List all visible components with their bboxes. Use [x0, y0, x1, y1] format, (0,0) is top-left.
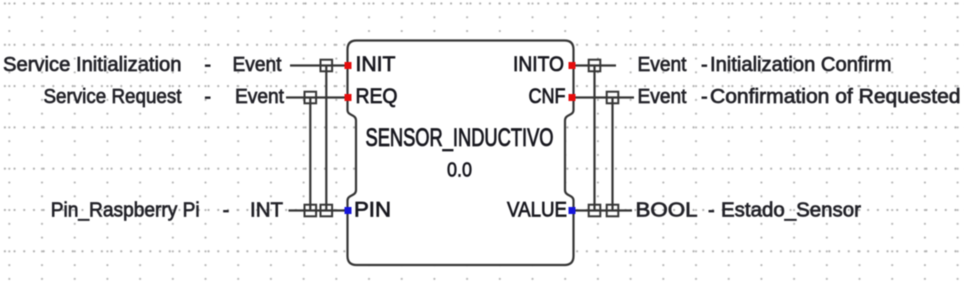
svg-text:Service Request: Service Request [44, 86, 182, 108]
svg-text:-: - [204, 54, 211, 76]
svg-text:Event: Event [235, 86, 284, 108]
svg-text:-: - [701, 54, 708, 76]
svg-text:PIN: PIN [354, 198, 391, 222]
svg-text:-: - [701, 86, 708, 108]
svg-text:Event: Event [638, 86, 687, 108]
svg-text:-: - [223, 200, 230, 222]
svg-text:CNF: CNF [529, 84, 566, 108]
svg-text:0.0: 0.0 [447, 159, 472, 182]
svg-text:INIT: INIT [356, 52, 396, 76]
svg-text:Event: Event [233, 54, 282, 76]
svg-text:INITO: INITO [513, 52, 564, 76]
svg-text:-: - [708, 200, 715, 222]
svg-text:Confirmation of Requested: Confirmation of Requested [710, 86, 961, 108]
svg-text:Pin_Raspberry Pi: Pin_Raspberry Pi [51, 200, 200, 222]
svg-text:INT: INT [250, 200, 283, 222]
svg-text:Service Initialization: Service Initialization [3, 54, 182, 76]
svg-text:REQ: REQ [356, 84, 398, 108]
svg-text:VALUE: VALUE [507, 198, 567, 222]
svg-text:Estado_Sensor: Estado_Sensor [721, 200, 861, 222]
svg-text:SENSOR_INDUCTIVO: SENSOR_INDUCTIVO [366, 125, 554, 152]
svg-text:-: - [204, 86, 211, 108]
svg-text:Initialization Confirm: Initialization Confirm [710, 54, 892, 76]
svg-text:Event: Event [638, 54, 687, 76]
svg-text:BOOL: BOOL [636, 200, 698, 222]
